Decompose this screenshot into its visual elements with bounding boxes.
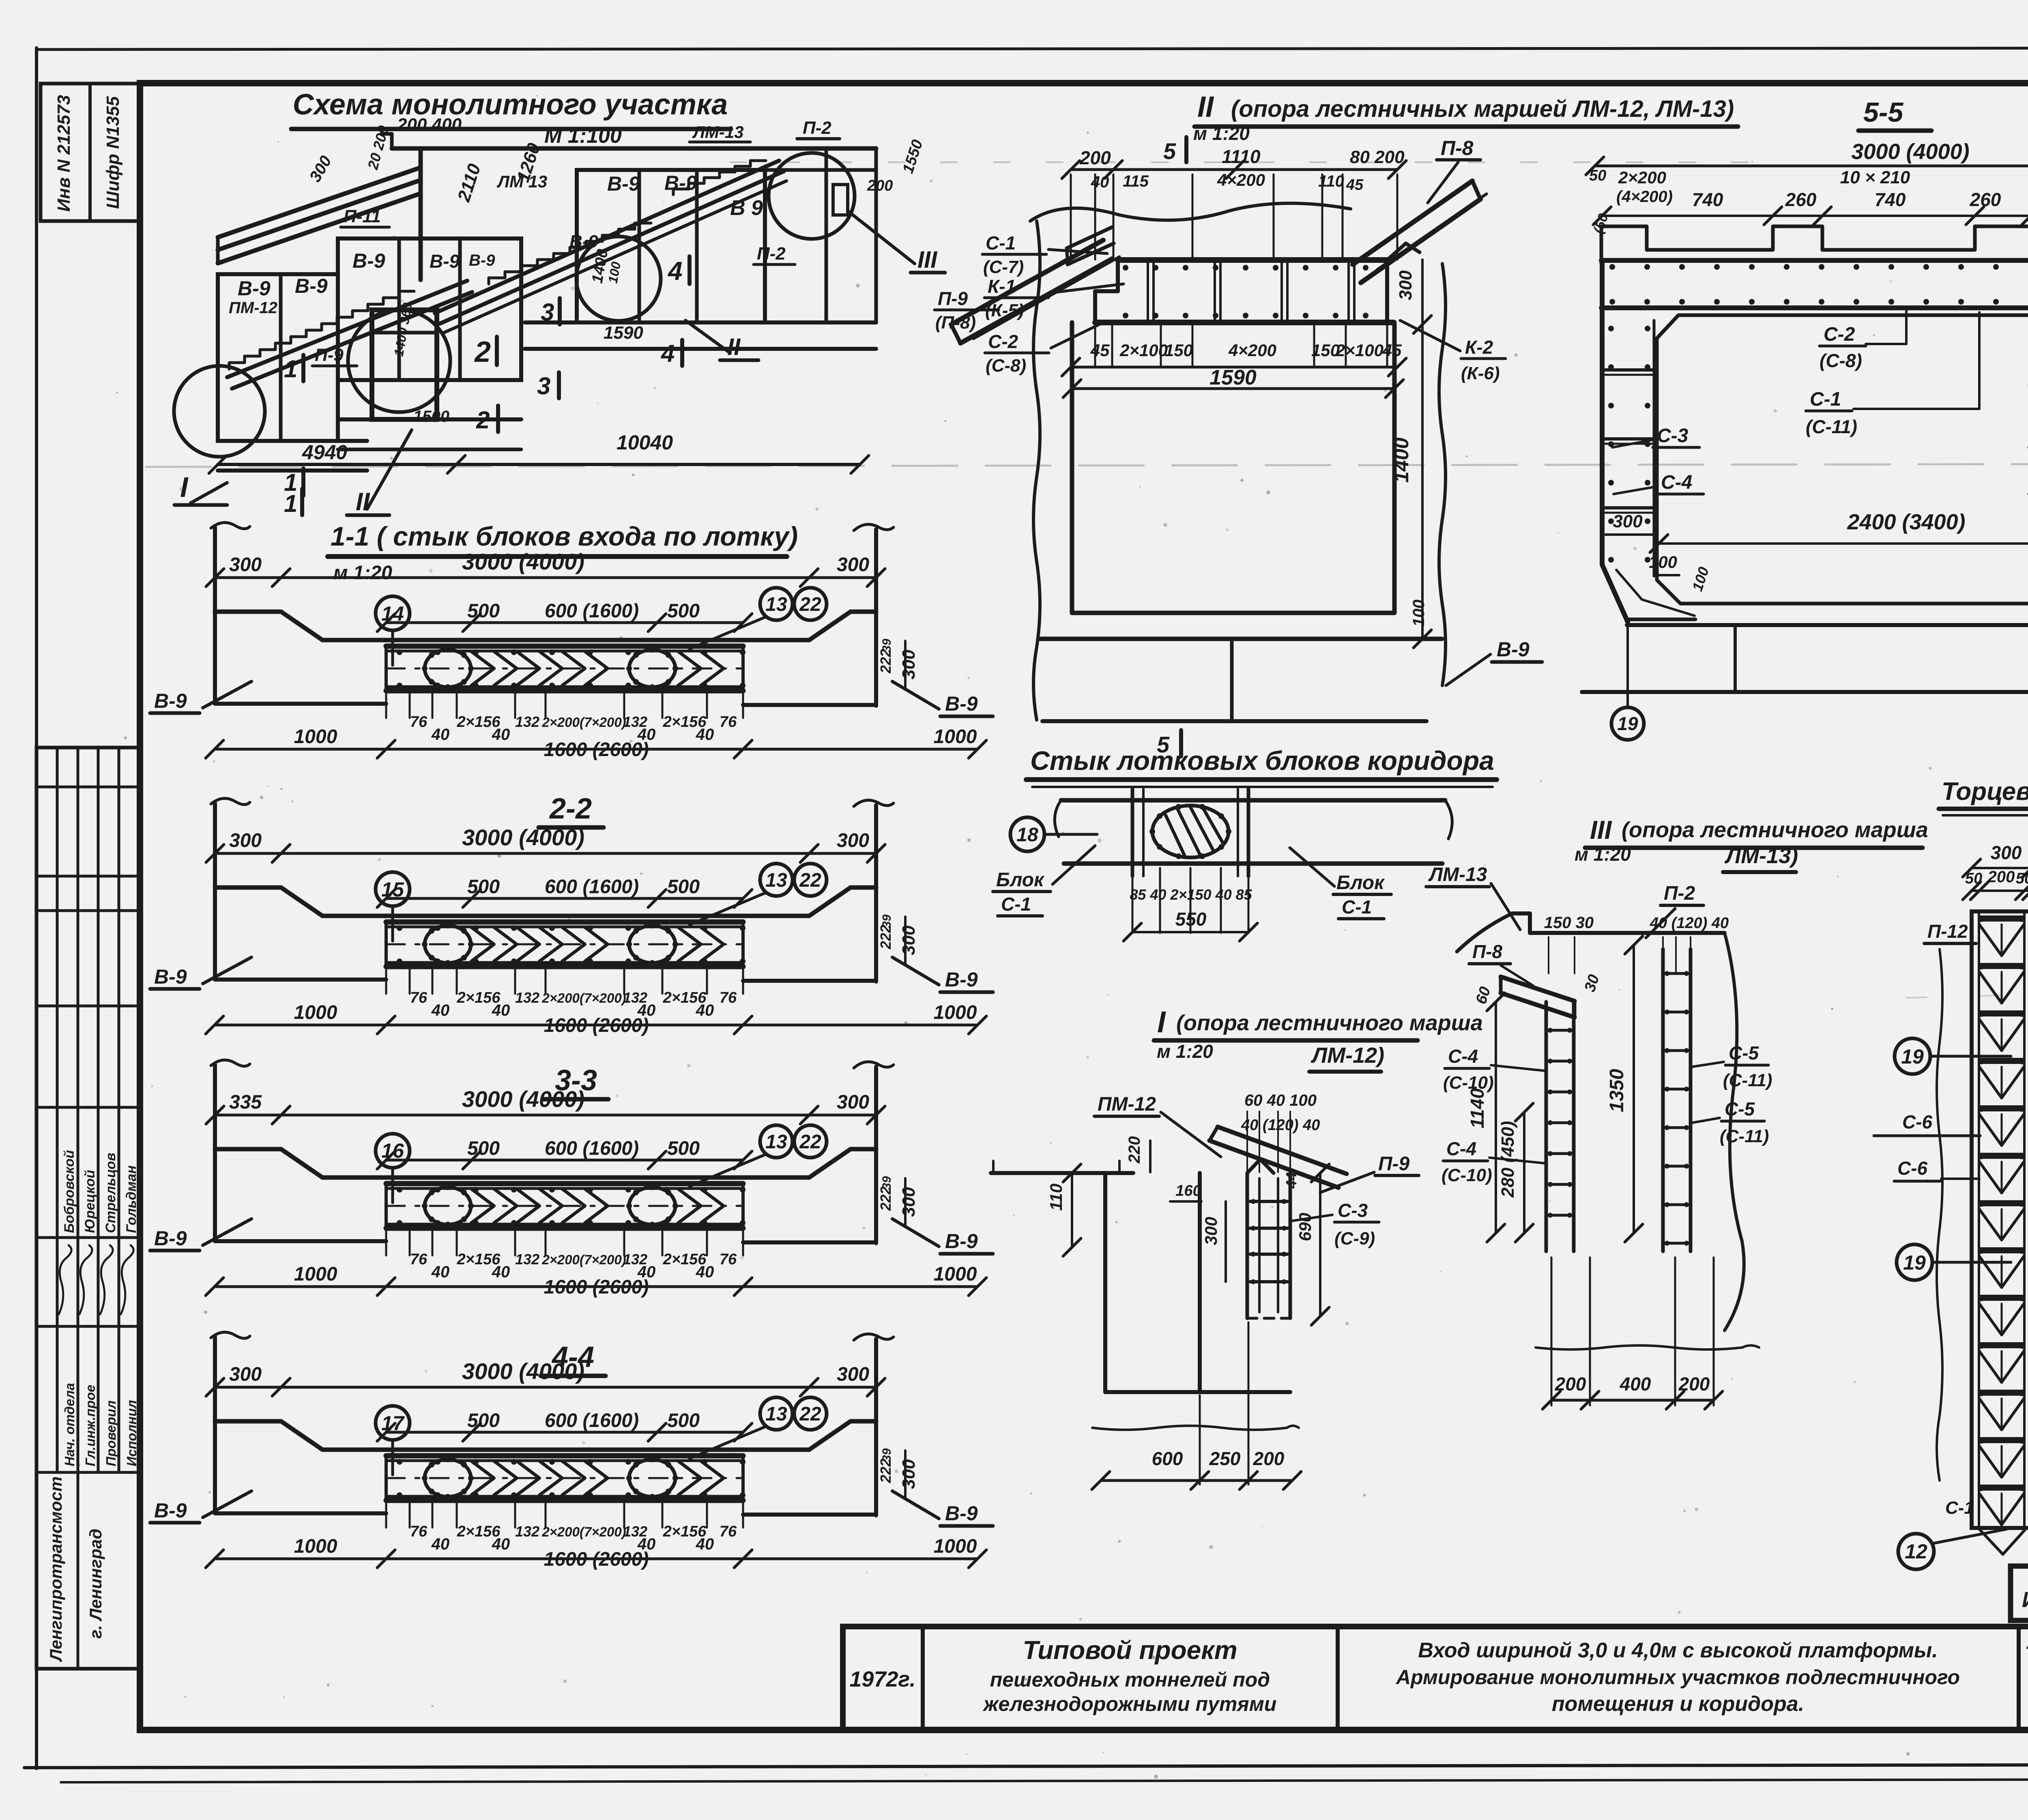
svg-text:220: 220 (1126, 1136, 1143, 1164)
svg-text:П-9: П-9 (1378, 1153, 1410, 1175)
svg-text:40: 40 (431, 1001, 450, 1019)
svg-text:400: 400 (1620, 1373, 1651, 1395)
svg-text:м 1:20: м 1:20 (1575, 844, 1631, 865)
svg-text:С-6: С-6 (1902, 1111, 1933, 1132)
svg-text:76: 76 (410, 713, 428, 731)
svg-text:4: 4 (667, 256, 683, 286)
svg-text:260: 260 (1970, 189, 2001, 210)
svg-text:40: 40 (492, 1001, 510, 1019)
svg-text:200: 200 (867, 177, 893, 194)
svg-text:4×200: 4×200 (1228, 341, 1276, 360)
svg-text:2×200(7×200): 2×200(7×200) (541, 1524, 626, 1539)
svg-text:П-8: П-8 (1472, 941, 1502, 962)
svg-text:Вход шириной 3,0 и 4,0м с высо: Вход шириной 3,0 и 4,0м с высокой платфо… (1418, 1639, 1938, 1662)
svg-text:335: 335 (229, 1092, 262, 1113)
svg-text:40: 40 (696, 1263, 714, 1281)
svg-text:50: 50 (1589, 167, 1606, 184)
svg-text:м 1:20: м 1:20 (333, 562, 392, 584)
svg-text:45: 45 (1346, 176, 1364, 193)
svg-text:3: 3 (541, 299, 554, 326)
svg-text:500: 500 (467, 876, 500, 898)
svg-text:В-9: В-9 (295, 275, 328, 297)
svg-text:В-9: В-9 (945, 1502, 978, 1525)
svg-text:В-9: В-9 (430, 251, 460, 272)
svg-text:М 1:100: М 1:100 (544, 124, 622, 148)
svg-text:П-2: П-2 (803, 118, 831, 138)
svg-text:1000: 1000 (934, 1536, 977, 1557)
svg-text:39: 39 (880, 1176, 894, 1190)
svg-text:300: 300 (229, 1364, 262, 1385)
svg-text:(опора лестничных маршей ЛМ-12: (опора лестничных маршей ЛМ-12, ЛМ-13) (1231, 96, 1734, 122)
svg-text:3000 (4000): 3000 (4000) (462, 825, 584, 850)
svg-text:3000 (4000): 3000 (4000) (462, 1358, 584, 1384)
svg-text:17: 17 (381, 1412, 405, 1435)
svg-text:В-9: В-9 (1497, 638, 1530, 661)
svg-text:300: 300 (1613, 511, 1643, 531)
svg-text:22: 22 (799, 594, 821, 615)
svg-text:300: 300 (837, 1364, 869, 1385)
svg-text:300: 300 (1396, 270, 1416, 300)
svg-text:40: 40 (431, 1263, 450, 1281)
svg-text:600 (1600): 600 (1600) (545, 1138, 639, 1159)
svg-text:(опора лестничного марша: (опора лестничного марша (1622, 818, 1928, 842)
svg-text:Типовой проект: Типовой проект (2025, 1642, 2028, 1665)
svg-text:222: 222 (877, 1459, 894, 1483)
svg-text:(С-11): (С-11) (1806, 416, 1857, 437)
svg-text:ПМ-12: ПМ-12 (229, 299, 277, 317)
svg-text:1000: 1000 (934, 726, 977, 748)
svg-text:60 40 100: 60 40 100 (1244, 1092, 1317, 1109)
svg-text:железнодорожными путями: железнодорожными путями (982, 1693, 1277, 1715)
svg-text:К-1: К-1 (988, 276, 1016, 297)
svg-text:(С-10): (С-10) (1442, 1165, 1492, 1185)
svg-text:40: 40 (696, 726, 714, 743)
svg-text:150 30: 150 30 (1544, 914, 1594, 932)
svg-text:Торцевая стена коридора: Торцевая стена коридора (1942, 778, 2028, 806)
svg-text:39: 39 (880, 1448, 894, 1462)
svg-text:300: 300 (1201, 1217, 1220, 1245)
svg-text:45: 45 (1382, 341, 1402, 360)
svg-text:Типовой проект: Типовой проект (1023, 1635, 1237, 1665)
svg-text:1: 1 (284, 355, 297, 382)
svg-text:Ленгипротрансмост: Ленгипротрансмост (46, 1476, 65, 1662)
svg-text:(К-6): (К-6) (1461, 363, 1500, 383)
svg-text:222: 222 (877, 649, 894, 674)
svg-text:3: 3 (537, 372, 550, 400)
svg-text:В-9: В-9 (352, 249, 385, 272)
svg-text:1350: 1350 (1606, 1069, 1628, 1112)
svg-text:76: 76 (720, 713, 737, 731)
svg-text:г. Ленинград: г. Ленинград (86, 1529, 105, 1639)
svg-text:76: 76 (720, 1523, 737, 1540)
svg-text:В-9: В-9 (154, 690, 187, 712)
svg-text:260: 260 (1785, 189, 1817, 210)
svg-text:2×100: 2×100 (1335, 341, 1384, 360)
svg-text:100: 100 (1410, 600, 1428, 627)
svg-text:1500: 1500 (413, 408, 449, 425)
svg-text:3000 (4000): 3000 (4000) (462, 1086, 584, 1112)
svg-text:300: 300 (899, 649, 919, 679)
svg-text:1590: 1590 (604, 323, 643, 343)
svg-text:40 (120) 40: 40 (120) 40 (1241, 1117, 1320, 1134)
svg-text:500: 500 (467, 600, 500, 622)
svg-text:I: I (1157, 1005, 1166, 1039)
svg-text:300: 300 (229, 830, 262, 851)
svg-text:200: 200 (1253, 1448, 1285, 1469)
svg-text:500: 500 (667, 600, 700, 622)
svg-text:40: 40 (431, 726, 450, 743)
svg-text:3000 (4000): 3000 (4000) (1851, 140, 1969, 164)
svg-text:13: 13 (765, 1403, 787, 1425)
svg-text:40: 40 (431, 1535, 450, 1553)
svg-text:5-5: 5-5 (1863, 97, 1903, 128)
svg-text:С-3: С-3 (1338, 1200, 1368, 1221)
svg-text:2400 (3400): 2400 (3400) (1847, 510, 1965, 534)
svg-text:40: 40 (492, 726, 510, 743)
svg-text:(С-7): (С-7) (983, 257, 1024, 277)
svg-text:В-9: В-9 (945, 968, 978, 991)
svg-text:4: 4 (661, 340, 675, 367)
svg-text:П-2: П-2 (757, 244, 786, 264)
svg-text:II: II (727, 334, 741, 360)
svg-text:1: 1 (284, 490, 297, 517)
svg-text:40 (120) 40: 40 (120) 40 (1650, 915, 1729, 932)
svg-text:22: 22 (799, 1131, 821, 1153)
svg-text:19: 19 (1901, 1045, 1924, 1068)
svg-text:13: 13 (765, 594, 787, 615)
svg-text:1-1 ( стык блоков входа по: 1-1 ( стык блоков входа по лотку) (331, 521, 798, 551)
svg-text:76: 76 (720, 989, 737, 1006)
svg-text:П-12: П-12 (1927, 921, 1968, 942)
svg-text:4×200: 4×200 (1217, 170, 1265, 189)
svg-text:(С-9): (С-9) (1334, 1229, 1375, 1248)
svg-text:1000: 1000 (934, 1263, 977, 1285)
svg-text:2: 2 (474, 336, 491, 368)
svg-text:м 1:20: м 1:20 (1193, 123, 1250, 144)
svg-text:С-3: С-3 (1657, 425, 1689, 447)
svg-text:Стрельцов: Стрельцов (103, 1153, 118, 1233)
svg-text:44: 44 (1283, 1172, 1300, 1189)
svg-text:С-2: С-2 (988, 331, 1018, 352)
svg-text:40: 40 (696, 1535, 714, 1553)
svg-text:18: 18 (1016, 824, 1038, 846)
svg-text:III: III (917, 247, 938, 273)
svg-text:В-9: В-9 (945, 1230, 978, 1253)
svg-text:Инв N 212573: Инв N 212573 (54, 95, 74, 212)
svg-text:13: 13 (765, 870, 787, 891)
svg-text:П-2: П-2 (1664, 883, 1695, 904)
svg-text:2×200(7×200): 2×200(7×200) (541, 1252, 626, 1267)
svg-text:II: II (356, 488, 370, 516)
svg-text:2-2: 2-2 (549, 793, 592, 825)
svg-text:С-1: С-1 (1810, 389, 1841, 410)
svg-text:3000 (4000): 3000 (4000) (462, 549, 584, 574)
svg-text:15: 15 (381, 878, 404, 901)
svg-text:300: 300 (837, 1092, 869, 1113)
svg-text:600: 600 (1152, 1448, 1183, 1469)
svg-text:В-9: В-9 (607, 172, 640, 195)
svg-text:Блок: Блок (996, 869, 1045, 891)
svg-text:С-6: С-6 (1897, 1158, 1928, 1179)
svg-text:40: 40 (492, 1535, 510, 1553)
svg-text:В 9: В 9 (730, 196, 763, 220)
svg-text:300: 300 (1991, 842, 2022, 863)
svg-text:ЛМ-13): ЛМ-13) (1724, 844, 1798, 868)
svg-text:(С-11): (С-11) (1720, 1126, 1769, 1146)
svg-text:П-8: П-8 (1441, 137, 1474, 159)
svg-text:пешеходных тоннелей под: пешеходных тоннелей под (990, 1668, 1270, 1691)
svg-text:Нач. отдела: Нач. отдела (62, 1383, 77, 1466)
svg-text:Юрецкой: Юрецкой (82, 1170, 98, 1233)
svg-text:132: 132 (515, 1251, 539, 1268)
svg-text:Инв. N: Инв. N (2022, 1588, 2028, 1612)
svg-text:600 (1600): 600 (1600) (545, 600, 639, 622)
svg-text:Проверил: Проверил (103, 1401, 118, 1466)
svg-text:С-4: С-4 (1448, 1046, 1478, 1067)
svg-text:22: 22 (799, 1403, 821, 1425)
svg-text:помещения и коридора.: помещения и коридора. (1552, 1692, 1804, 1716)
svg-text:2×200: 2×200 (1618, 168, 1666, 187)
svg-text:Армирование монолитных участк: Армирование монолитных участков подлестн… (1395, 1666, 1960, 1689)
svg-text:10040: 10040 (617, 431, 673, 454)
svg-text:300: 300 (899, 1459, 919, 1489)
svg-text:250: 250 (1209, 1448, 1241, 1469)
svg-text:132: 132 (515, 713, 539, 730)
svg-text:600 (1600): 600 (1600) (545, 876, 639, 898)
svg-text:1000: 1000 (294, 1263, 337, 1285)
svg-text:м 1:20: м 1:20 (1157, 1041, 1213, 1062)
svg-text:500: 500 (667, 1410, 700, 1431)
svg-text:19: 19 (1903, 1251, 1926, 1274)
svg-text:500: 500 (667, 876, 700, 898)
svg-text:19: 19 (1617, 713, 1638, 734)
svg-text:Гл.инж.прое: Гл.инж.прое (83, 1385, 98, 1466)
svg-text:(С-11): (С-11) (1723, 1070, 1772, 1090)
svg-text:(4×200): (4×200) (1616, 188, 1673, 206)
svg-text:200: 200 (1079, 147, 1111, 168)
svg-text:300: 300 (899, 1187, 919, 1217)
svg-text:В-9: В-9 (154, 965, 187, 988)
svg-text:(опора лестничного марша: (опора лестничного марша (1176, 1011, 1483, 1035)
svg-text:Схема монолитного участка: Схема монолитного участка (293, 88, 728, 121)
svg-text:ЛМ-13: ЛМ-13 (692, 122, 744, 142)
svg-text:С-1: С-1 (1945, 1498, 1974, 1518)
svg-text:2: 2 (476, 406, 490, 434)
svg-text:300: 300 (229, 554, 262, 576)
svg-text:1140: 1140 (1467, 1088, 1488, 1128)
svg-text:1590: 1590 (1209, 366, 1257, 389)
svg-text:(С-8): (С-8) (1820, 350, 1862, 371)
svg-text:5: 5 (1163, 138, 1176, 164)
svg-text:76: 76 (720, 1251, 737, 1268)
svg-text:200 400: 200 400 (397, 115, 462, 135)
svg-text:Стык лотковых блоков коридо: Стык лотковых блоков коридора (1030, 746, 1494, 776)
svg-text:ЛМ-12): ЛМ-12) (1310, 1043, 1384, 1068)
svg-text:ПМ-12: ПМ-12 (1098, 1094, 1156, 1115)
svg-text:300: 300 (837, 554, 869, 576)
svg-text:85 40 2×150 40 85: 85 40 2×150 40 85 (1130, 886, 1252, 903)
svg-text:С-1: С-1 (986, 232, 1016, 254)
svg-text:П-9: П-9 (938, 288, 968, 309)
svg-text:150: 150 (1164, 341, 1193, 360)
svg-text:1400: 1400 (1390, 438, 1413, 483)
svg-text:76: 76 (410, 1523, 428, 1540)
svg-text:С-2: С-2 (1824, 324, 1855, 345)
svg-text:С-4: С-4 (1446, 1138, 1476, 1159)
svg-text:С-5: С-5 (1729, 1042, 1759, 1064)
svg-text:200: 200 (1987, 868, 2015, 886)
svg-text:(П-8): (П-8) (935, 313, 976, 333)
svg-text:Исполнил: Исполнил (124, 1400, 139, 1466)
svg-text:740: 740 (1875, 189, 1906, 210)
svg-text:10 × 210: 10 × 210 (1840, 168, 1910, 187)
svg-text:13: 13 (765, 1131, 787, 1153)
svg-text:740: 740 (1692, 189, 1723, 210)
svg-text:В-9: В-9 (154, 1499, 187, 1522)
svg-text:40: 40 (1091, 173, 1109, 191)
svg-text:500: 500 (467, 1410, 500, 1431)
svg-text:500: 500 (667, 1138, 700, 1159)
svg-text:В-9: В-9 (238, 277, 271, 300)
svg-text:ЛМ-13: ЛМ-13 (1428, 864, 1487, 885)
svg-text:1000: 1000 (294, 1536, 337, 1557)
svg-text:С-1: С-1 (1001, 894, 1031, 915)
svg-text:П-11: П-11 (344, 206, 381, 226)
svg-text:II: II (1197, 91, 1214, 123)
svg-text:39: 39 (880, 914, 894, 928)
svg-text:Шифр N1355: Шифр N1355 (103, 96, 123, 209)
svg-text:1000: 1000 (294, 1002, 337, 1023)
svg-text:500: 500 (467, 1138, 500, 1159)
svg-text:80 200: 80 200 (1350, 147, 1405, 167)
svg-text:132: 132 (515, 1523, 539, 1540)
svg-text:Бобровской: Бобровской (62, 1150, 77, 1233)
svg-text:В-9: В-9 (154, 1227, 187, 1250)
svg-text:132: 132 (515, 989, 539, 1006)
svg-text:14: 14 (381, 602, 404, 625)
svg-text:222: 222 (877, 925, 894, 950)
svg-text:76: 76 (410, 1251, 428, 1268)
svg-text:1000: 1000 (934, 1002, 977, 1023)
svg-text:С-1: С-1 (1342, 896, 1372, 918)
svg-text:Гольдман: Гольдман (124, 1165, 139, 1233)
svg-text:(С-8): (С-8) (986, 356, 1026, 376)
svg-text:50: 50 (2016, 870, 2028, 887)
svg-text:76: 76 (410, 989, 428, 1006)
svg-text:К-2: К-2 (1465, 337, 1493, 358)
svg-text:(С-10): (С-10) (1443, 1073, 1494, 1093)
svg-text:40: 40 (492, 1263, 510, 1281)
svg-text:110: 110 (1046, 1184, 1066, 1211)
svg-text:П-9: П-9 (315, 345, 344, 365)
svg-text:45: 45 (1090, 341, 1110, 360)
svg-text:16: 16 (381, 1139, 404, 1162)
svg-text:600 (1600): 600 (1600) (545, 1410, 639, 1431)
svg-text:В-9: В-9 (664, 172, 697, 194)
svg-text:100: 100 (1649, 552, 1677, 572)
svg-text:2×200(7×200): 2×200(7×200) (541, 715, 626, 730)
svg-text:22: 22 (799, 870, 821, 891)
svg-text:550: 550 (1175, 909, 1207, 930)
svg-text:В-9: В-9 (569, 232, 598, 251)
svg-text:Блок: Блок (1336, 872, 1385, 894)
svg-text:300: 300 (837, 830, 869, 851)
svg-text:В-9: В-9 (945, 692, 978, 715)
svg-text:39: 39 (880, 638, 894, 652)
svg-text:1972г.: 1972г. (849, 1667, 915, 1691)
svg-text:С-5: С-5 (1725, 1098, 1755, 1120)
svg-text:I: I (180, 471, 189, 503)
svg-text:115: 115 (1123, 172, 1149, 190)
svg-text:300: 300 (899, 925, 919, 955)
svg-text:В-9: В-9 (469, 251, 495, 269)
svg-text:222: 222 (877, 1186, 894, 1211)
svg-text:12: 12 (1905, 1540, 1927, 1563)
svg-text:40: 40 (696, 1001, 714, 1019)
svg-text:1000: 1000 (294, 726, 337, 748)
svg-text:С-4: С-4 (1661, 472, 1692, 493)
svg-text:III: III (1590, 815, 1612, 844)
svg-text:2×200(7×200): 2×200(7×200) (541, 991, 626, 1006)
svg-text:160: 160 (1175, 1182, 1201, 1199)
svg-text:4940: 4940 (302, 441, 347, 464)
